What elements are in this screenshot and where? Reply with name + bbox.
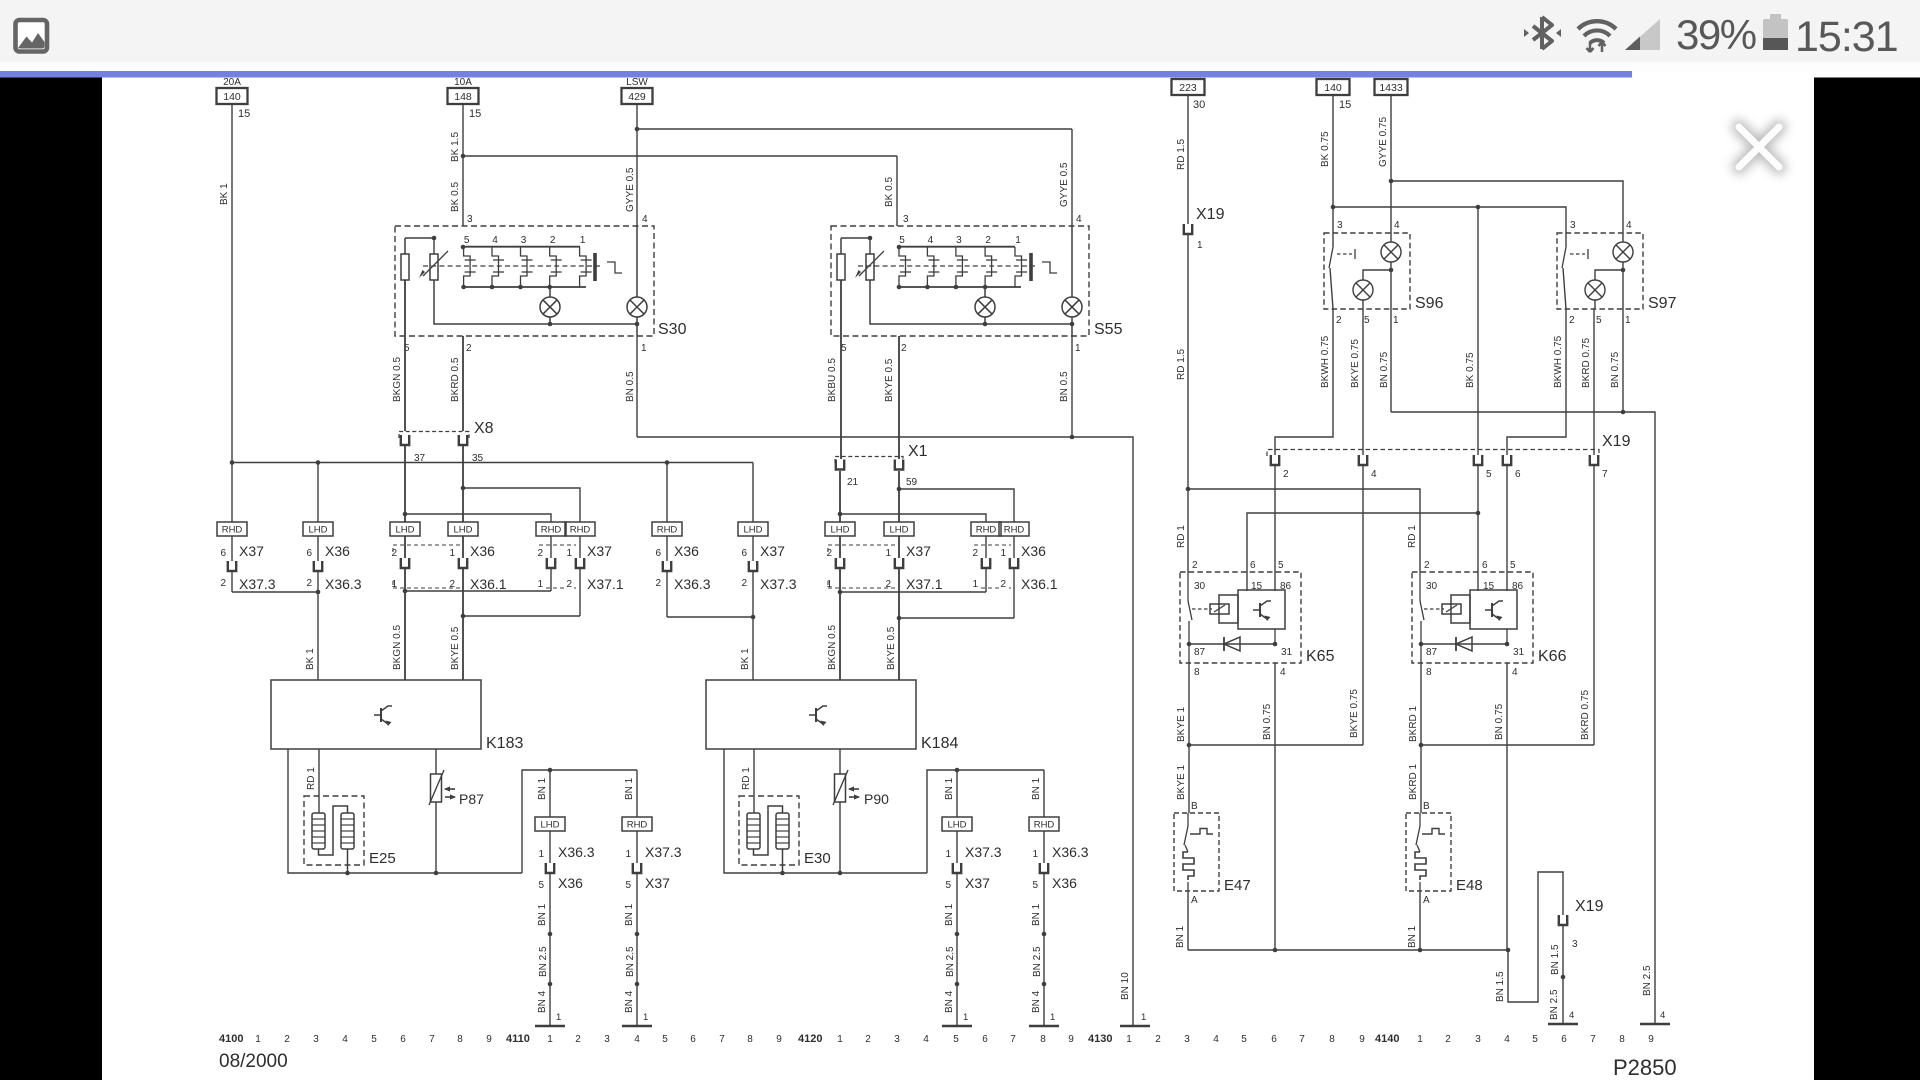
svg-text:P2850: P2850 bbox=[1613, 1055, 1677, 1080]
svg-text:1: 1 bbox=[643, 1012, 648, 1023]
svg-text:7: 7 bbox=[1010, 1034, 1016, 1045]
svg-text:1: 1 bbox=[556, 1012, 561, 1023]
svg-text:B: B bbox=[1191, 801, 1198, 812]
lamp in S55 (illumination) bbox=[975, 287, 995, 324]
svg-text:X37: X37 bbox=[906, 543, 931, 559]
wire BKGN 0.5 S30 pin5 to X8 pin37 bbox=[392, 336, 405, 431]
svg-text:5: 5 bbox=[945, 880, 951, 891]
svg-text:2: 2 bbox=[1283, 469, 1289, 480]
wire BN 2.5 to ground 4140-6 bbox=[1549, 925, 1565, 1024]
wire BK1 feed bus bbox=[230, 460, 753, 465]
svg-text:5: 5 bbox=[1241, 1034, 1247, 1045]
wire BN 0.75 bus S96/S97 to BN 2.5 ground bbox=[1391, 410, 1655, 1024]
svg-text:X36.3: X36.3 bbox=[325, 576, 362, 592]
wire BKYE 0.75 mirror lamp feed (X19-4 to K65-87) bbox=[1187, 466, 1363, 747]
svg-text:15: 15 bbox=[469, 108, 481, 120]
svg-text:4: 4 bbox=[1076, 214, 1082, 225]
svg-text:1: 1 bbox=[885, 548, 891, 559]
connector housing dashes circuit2 bbox=[828, 545, 1011, 588]
svg-text:1: 1 bbox=[972, 579, 978, 590]
wire RD 1.5 to relay feed bbox=[1176, 234, 1190, 491]
connector X37 RHD (left, pin6/2) bbox=[217, 463, 276, 593]
wire BK 0.75 to relay coils bbox=[1247, 466, 1480, 591]
wire BN 1 E48 to ground bus bbox=[1407, 891, 1420, 950]
svg-text:9: 9 bbox=[1359, 1034, 1365, 1045]
svg-text:X37.1: X37.1 bbox=[906, 576, 943, 592]
svg-text:X1: X1 bbox=[908, 443, 928, 460]
svg-text:7: 7 bbox=[719, 1034, 725, 1045]
svg-text:BN 1: BN 1 bbox=[537, 903, 548, 926]
svg-text:X37.3: X37.3 bbox=[760, 576, 797, 592]
connector housing dashes circuit1 bbox=[393, 545, 576, 588]
svg-text:31: 31 bbox=[1281, 647, 1293, 658]
wire RHD variant return BKGN bbox=[403, 589, 551, 594]
wire BKWH to K65 coil (pin 5/86) bbox=[1274, 466, 1276, 591]
switch S55 enclosure bbox=[831, 214, 1123, 354]
svg-text:4: 4 bbox=[642, 214, 648, 225]
svg-text:RD 1: RD 1 bbox=[1407, 525, 1418, 548]
fuse 223 bbox=[1172, 79, 1206, 111]
svg-text:LHD: LHD bbox=[889, 525, 908, 536]
svg-text:2: 2 bbox=[865, 1034, 871, 1045]
svg-text:30: 30 bbox=[1426, 581, 1438, 592]
relay K183 (heated mirror control) bbox=[271, 680, 523, 752]
svg-text:30: 30 bbox=[1194, 581, 1206, 592]
diode in K66 bbox=[1419, 637, 1510, 651]
switch lever S97 bbox=[1562, 233, 1588, 309]
svg-text:5: 5 bbox=[841, 343, 847, 354]
svg-text:GYYE 0.75: GYYE 0.75 bbox=[1378, 117, 1389, 167]
svg-text:LHD: LHD bbox=[743, 525, 762, 536]
switch S97 enclosure bbox=[1557, 220, 1677, 326]
svg-text:BN 1: BN 1 bbox=[624, 903, 635, 926]
wire GYYE 0.5 from fuse 429 to S30 pin4 bbox=[635, 104, 640, 226]
svg-text:2: 2 bbox=[284, 1034, 290, 1045]
fuse 140 (20A) bbox=[217, 77, 251, 120]
switch S96 enclosure bbox=[1324, 220, 1444, 326]
svg-text:P90: P90 bbox=[864, 791, 889, 807]
wire K66 pin87 BKRD 1 bbox=[1408, 644, 1421, 745]
svg-text:5: 5 bbox=[1364, 315, 1370, 326]
svg-text:X36: X36 bbox=[674, 543, 699, 559]
svg-text:BN 1: BN 1 bbox=[1031, 903, 1042, 926]
wire BN 0.75 S96 pin1 bbox=[1379, 309, 1391, 412]
svg-text:2: 2 bbox=[972, 548, 978, 559]
svg-text:X19: X19 bbox=[1196, 206, 1225, 223]
svg-text:BN 1: BN 1 bbox=[537, 777, 548, 800]
wire BK1.5 / BK0.5 from fuse 148 to S30 pin3 bbox=[450, 104, 465, 226]
svg-text:30: 30 bbox=[1193, 99, 1205, 111]
svg-text:BK 1: BK 1 bbox=[305, 648, 316, 670]
svg-text:1: 1 bbox=[1141, 1012, 1146, 1023]
close button X bbox=[1739, 127, 1779, 167]
relay K65 enclosure bbox=[1180, 560, 1335, 678]
wire BN 0.5 from S30 pin1 bbox=[625, 336, 637, 437]
svg-text:X37: X37 bbox=[760, 543, 785, 559]
svg-text:4: 4 bbox=[1504, 1034, 1510, 1045]
svg-text:LSW: LSW bbox=[626, 77, 648, 88]
wire BK 0.75 from fuse 140 to S96 pin3 bbox=[1320, 95, 1335, 233]
svg-text:3: 3 bbox=[521, 235, 527, 246]
svg-text:LHD: LHD bbox=[830, 525, 849, 536]
connector X36 LHD pass-through (BKGN) bbox=[390, 446, 420, 591]
svg-text:RHD: RHD bbox=[1034, 820, 1055, 831]
svg-text:5: 5 bbox=[899, 235, 905, 246]
connector X19 pin3 bbox=[1559, 898, 1604, 950]
svg-text:3: 3 bbox=[1570, 220, 1576, 231]
svg-text:7: 7 bbox=[1602, 469, 1608, 480]
ground column X36.3 RHD (4120-8) bbox=[1029, 770, 1089, 1026]
svg-text:E48: E48 bbox=[1456, 877, 1483, 894]
svg-text:RHD: RHD bbox=[657, 525, 678, 536]
svg-text:3: 3 bbox=[1337, 220, 1343, 231]
svg-text:1: 1 bbox=[1625, 315, 1631, 326]
svg-text:7: 7 bbox=[1299, 1034, 1305, 1045]
svg-text:A: A bbox=[1423, 895, 1430, 906]
svg-text:BK 0.5: BK 0.5 bbox=[450, 182, 461, 212]
svg-text:GYYE 0.5: GYYE 0.5 bbox=[625, 167, 636, 212]
svg-text:8: 8 bbox=[1329, 1034, 1335, 1045]
fuse 1433 bbox=[1375, 79, 1408, 95]
wire BKYE 0.5 S55 pin2 to X1 pin59 bbox=[884, 336, 899, 459]
svg-text:3: 3 bbox=[1475, 1034, 1481, 1045]
S30 rotary contact bank bbox=[423, 235, 622, 289]
connector X19 (mirror harness) bbox=[1267, 433, 1631, 480]
svg-text:BK 0.75: BK 0.75 bbox=[1320, 131, 1331, 167]
svg-text:BN 2.5: BN 2.5 bbox=[1642, 965, 1653, 996]
svg-text:E47: E47 bbox=[1224, 877, 1251, 894]
right black bar bbox=[1814, 78, 1920, 1080]
svg-text:X8: X8 bbox=[474, 420, 494, 437]
bluetooth icon bbox=[1524, 17, 1561, 49]
svg-text:BN 0.5: BN 0.5 bbox=[1059, 371, 1070, 402]
connector X37 LHD pass-through (BKGN, circuit2) bbox=[825, 471, 855, 592]
svg-text:BKWH 0.75: BKWH 0.75 bbox=[1320, 335, 1331, 388]
svg-text:4100: 4100 bbox=[219, 1033, 243, 1045]
connector X37.1 LHD pass-through (BKYE, circuit2) bbox=[884, 471, 943, 618]
fuse 429 (LSW) bbox=[622, 77, 653, 104]
svg-text:2: 2 bbox=[901, 343, 907, 354]
svg-text:6: 6 bbox=[1482, 560, 1488, 571]
svg-text:9: 9 bbox=[486, 1034, 492, 1045]
svg-text:7: 7 bbox=[1590, 1034, 1596, 1045]
heated washer jet E48 bbox=[1406, 745, 1483, 906]
svg-text:E25: E25 bbox=[369, 850, 396, 867]
svg-text:1: 1 bbox=[1015, 235, 1021, 246]
svg-text:BKYE 1: BKYE 1 bbox=[1176, 765, 1187, 800]
heater element E25 (mirror) bbox=[304, 796, 396, 873]
wire BKBU 0.5 S55 pin5 to X1 pin21 bbox=[827, 336, 841, 459]
lamp S96 upper bbox=[1381, 233, 1401, 309]
svg-text:1: 1 bbox=[1050, 1012, 1055, 1023]
connector X19 pin1 bbox=[1184, 206, 1225, 251]
svg-text:5: 5 bbox=[464, 235, 470, 246]
svg-text:8: 8 bbox=[1426, 667, 1432, 678]
svg-text:X36.1: X36.1 bbox=[470, 576, 507, 592]
lamp in S30 (indicator) bbox=[627, 226, 647, 336]
wire BKGN 0.5 to K184 bbox=[827, 592, 840, 680]
ground point 4140-9 bbox=[1640, 1023, 1670, 1026]
svg-text:BK 1.5: BK 1.5 bbox=[450, 132, 461, 162]
connector X36.1 LHD pass-through (BKRD) bbox=[448, 446, 507, 616]
wire BKWH 0.75 S97 pin2 to X19-6 bbox=[1507, 309, 1566, 455]
svg-text:8: 8 bbox=[457, 1034, 463, 1045]
svg-text:6: 6 bbox=[1561, 1034, 1567, 1045]
wire BKRD 0.5 S30 pin2 to X8 pin35 bbox=[450, 336, 463, 431]
svg-text:15: 15 bbox=[238, 108, 250, 120]
svg-text:BK 0.75: BK 0.75 bbox=[1465, 352, 1476, 388]
svg-text:BKWH 0.75: BKWH 0.75 bbox=[1553, 335, 1564, 388]
wire join to K184 BK1 bbox=[667, 615, 755, 680]
svg-text:2: 2 bbox=[391, 548, 397, 559]
fuse 140 (right) bbox=[1317, 79, 1352, 111]
wire BKYE 0.5 to K184 bbox=[886, 618, 899, 680]
svg-text:2: 2 bbox=[550, 235, 556, 246]
svg-text:1: 1 bbox=[580, 235, 586, 246]
svg-text:1433: 1433 bbox=[1379, 82, 1403, 94]
svg-text:2: 2 bbox=[1192, 560, 1198, 571]
svg-text:LHD: LHD bbox=[453, 525, 472, 536]
wire BK 0.5 branch to S55 pin3 bbox=[463, 156, 897, 226]
ground column X36.3 LHD (4110-1) bbox=[535, 770, 595, 1026]
svg-text:RD 1: RD 1 bbox=[306, 767, 317, 790]
svg-text:6: 6 bbox=[1271, 1034, 1277, 1045]
svg-text:BK 1: BK 1 bbox=[219, 183, 230, 205]
svg-text:E30: E30 bbox=[804, 850, 831, 867]
wire BKYE 0.5 to K183 bbox=[450, 616, 463, 680]
wire BKYE 0.75 S96 pin5 to X19-4 bbox=[1350, 309, 1363, 455]
svg-text:3: 3 bbox=[1572, 939, 1578, 950]
ground point 4120-8 bbox=[1029, 1025, 1059, 1028]
svg-text:1: 1 bbox=[625, 849, 631, 860]
svg-text:6: 6 bbox=[982, 1034, 988, 1045]
svg-text:X36.3: X36.3 bbox=[1052, 844, 1089, 860]
svg-text:7: 7 bbox=[429, 1034, 435, 1045]
battery icon bbox=[1763, 14, 1788, 50]
wire BK 0.75 branch to S97 pin3 and X19-5 bbox=[1333, 205, 1566, 455]
svg-text:87: 87 bbox=[1426, 647, 1438, 658]
svg-text:BN 1.5: BN 1.5 bbox=[1495, 971, 1506, 1002]
switch lever S96 bbox=[1329, 233, 1355, 309]
wire BN 1 E47 to ground bus bbox=[1175, 891, 1188, 950]
wire BN 1.5 jog to X19-3 bbox=[1495, 872, 1563, 1002]
svg-text:429: 429 bbox=[628, 91, 646, 103]
svg-text:BN 0.75: BN 0.75 bbox=[1610, 351, 1621, 388]
svg-text:X36: X36 bbox=[1021, 543, 1046, 559]
ground point 4120-5 bbox=[942, 1025, 972, 1028]
svg-text:5: 5 bbox=[1032, 880, 1038, 891]
wire K65 pin31 BN 0.75 bbox=[1262, 663, 1275, 950]
svg-text:2: 2 bbox=[741, 578, 747, 589]
connector X8 bbox=[399, 420, 494, 464]
svg-text:BN 0.75: BN 0.75 bbox=[1379, 351, 1390, 388]
svg-text:LHD: LHD bbox=[540, 820, 559, 831]
svg-text:X19: X19 bbox=[1602, 433, 1631, 450]
ground point 4140-6 bbox=[1548, 1023, 1578, 1026]
lamp S97 upper bbox=[1613, 233, 1633, 309]
svg-text:LHD: LHD bbox=[395, 525, 414, 536]
connector X1 bbox=[835, 443, 928, 488]
svg-text:BKYE 0.75: BKYE 0.75 bbox=[1350, 339, 1361, 388]
svg-text:4: 4 bbox=[1213, 1034, 1219, 1045]
svg-text:39%: 39% bbox=[1676, 11, 1756, 58]
svg-text:BKYE 0.5: BKYE 0.5 bbox=[884, 358, 895, 402]
svg-text:5: 5 bbox=[1532, 1034, 1538, 1045]
svg-text:8: 8 bbox=[1619, 1034, 1625, 1045]
wire join RHD/LHD to K183 BK1 bbox=[232, 590, 320, 680]
svg-text:BKRD 1: BKRD 1 bbox=[1408, 705, 1419, 742]
wire BN 0.5 from S55 pin1 bbox=[1059, 336, 1072, 437]
svg-text:X36.1: X36.1 bbox=[1021, 576, 1058, 592]
svg-text:8: 8 bbox=[1040, 1034, 1046, 1045]
svg-text:2: 2 bbox=[466, 343, 472, 354]
svg-text:X37: X37 bbox=[587, 543, 612, 559]
svg-text:1: 1 bbox=[538, 849, 544, 860]
svg-text:1: 1 bbox=[1393, 315, 1399, 326]
svg-text:BKRD 0.5: BKRD 0.5 bbox=[450, 357, 461, 402]
svg-text:31: 31 bbox=[1513, 647, 1525, 658]
svg-text:X37.3: X37.3 bbox=[239, 576, 276, 592]
svg-text:1: 1 bbox=[1075, 343, 1081, 354]
svg-text:5: 5 bbox=[1486, 469, 1492, 480]
svg-text:BN 2.5: BN 2.5 bbox=[945, 946, 956, 977]
status bar background bbox=[0, 0, 1920, 62]
svg-text:6: 6 bbox=[400, 1034, 406, 1045]
lamp S96 lower bbox=[1353, 270, 1391, 309]
wire RHD variant return circuit2 BKGN bbox=[838, 590, 986, 595]
wire RD 1 K183 to E25 bbox=[306, 749, 319, 813]
svg-text:6: 6 bbox=[306, 548, 312, 559]
svg-text:5: 5 bbox=[1278, 560, 1284, 571]
svg-text:RD 1.5: RD 1.5 bbox=[1176, 138, 1187, 170]
svg-text:X36.3: X36.3 bbox=[558, 844, 595, 860]
svg-text:LHD: LHD bbox=[308, 525, 327, 536]
svg-text:140: 140 bbox=[1324, 82, 1342, 94]
svg-text:P87: P87 bbox=[459, 791, 484, 807]
svg-text:S96: S96 bbox=[1415, 295, 1444, 312]
svg-text:6: 6 bbox=[220, 548, 226, 559]
svg-text:K184: K184 bbox=[921, 735, 958, 752]
svg-text:9: 9 bbox=[1648, 1034, 1654, 1045]
svg-text:RD 1: RD 1 bbox=[741, 767, 752, 790]
svg-text:6: 6 bbox=[741, 548, 747, 559]
svg-text:1: 1 bbox=[537, 579, 543, 590]
svg-text:BN 10: BN 10 bbox=[1120, 972, 1131, 1000]
wire branch circuit2 BKGN to RHD variant bbox=[838, 512, 986, 522]
track scale row bbox=[219, 1033, 1654, 1045]
gallery icon bbox=[16, 20, 48, 52]
wire BN bus to BN 10 ground bbox=[637, 435, 1133, 1026]
svg-text:S55: S55 bbox=[1094, 321, 1123, 338]
heated washer jet E47 bbox=[1174, 745, 1251, 906]
relay K65 electronic coil bbox=[1238, 590, 1285, 644]
svg-text:X36: X36 bbox=[558, 875, 583, 891]
wire GYYE 0.75 from fuse 1433 to S96 pin4 bbox=[1378, 95, 1393, 233]
svg-text:1: 1 bbox=[963, 1012, 968, 1023]
svg-text:B: B bbox=[1423, 801, 1430, 812]
svg-text:1: 1 bbox=[945, 849, 951, 860]
ground column X37.3 RHD (4110-4) bbox=[622, 770, 682, 1026]
svg-text:2: 2 bbox=[1424, 560, 1430, 571]
svg-text:X36: X36 bbox=[1052, 875, 1077, 891]
relay K66 electronic coil bbox=[1470, 590, 1517, 644]
svg-text:BN 4: BN 4 bbox=[944, 990, 955, 1013]
wire BKRD 0.75 mirror lamp feed (X19-7 to K66-87) bbox=[1419, 466, 1594, 747]
svg-text:10A: 10A bbox=[454, 77, 472, 88]
wire GYYE 0.5 branch to S55 pin4 bbox=[625, 129, 1072, 226]
svg-text:4120: 4120 bbox=[798, 1033, 822, 1045]
diode in K65 bbox=[1187, 637, 1278, 651]
svg-text:1: 1 bbox=[1032, 849, 1038, 860]
svg-text:4140: 4140 bbox=[1375, 1033, 1399, 1045]
svg-text:4: 4 bbox=[1626, 220, 1632, 231]
relay K66 enclosure bbox=[1412, 560, 1567, 678]
svg-text:2: 2 bbox=[655, 578, 661, 589]
lamp in S55 (indicator) bbox=[1062, 226, 1082, 336]
relay K184 (heated mirror control) bbox=[706, 680, 958, 752]
wire RHD variant return circuit2 BKYE bbox=[897, 616, 1014, 621]
svg-text:6: 6 bbox=[690, 1034, 696, 1045]
svg-text:1: 1 bbox=[641, 343, 647, 354]
svg-text:2: 2 bbox=[826, 548, 832, 559]
svg-text:BN 0.75: BN 0.75 bbox=[1262, 703, 1273, 740]
svg-text:BN 1.5: BN 1.5 bbox=[1550, 944, 1561, 975]
wire BK1 from fuse 140 bbox=[219, 104, 232, 463]
wire K65 pin87 BKYE 1 bbox=[1176, 644, 1189, 745]
svg-text:3: 3 bbox=[313, 1034, 319, 1045]
ground column X37.3 LHD (4120-5) bbox=[942, 770, 1002, 1026]
wire BKWH to K66 coil (pin 5/86) bbox=[1506, 466, 1508, 591]
svg-text:3: 3 bbox=[467, 214, 473, 225]
wire RHD variant return BKRD bbox=[461, 614, 580, 619]
svg-text:BN 1: BN 1 bbox=[1175, 925, 1186, 948]
wire K66 pin31 BN 0.75 bbox=[1494, 663, 1507, 950]
svg-text:1: 1 bbox=[1126, 1034, 1132, 1045]
svg-text:BKYE 0.5: BKYE 0.5 bbox=[450, 626, 461, 670]
svg-text:15:31: 15:31 bbox=[1795, 13, 1898, 61]
wire branch BKRD to RHD variant bbox=[461, 486, 580, 522]
wire BKGN 0.5 to K183 bbox=[392, 591, 405, 680]
svg-text:BN 0.75: BN 0.75 bbox=[1494, 703, 1505, 740]
connector X36 RHD variant circuit2 bbox=[971, 522, 1001, 592]
svg-text:1: 1 bbox=[1417, 1034, 1423, 1045]
svg-text:K65: K65 bbox=[1306, 648, 1335, 665]
svg-text:4130: 4130 bbox=[1088, 1033, 1112, 1045]
svg-text:5: 5 bbox=[625, 880, 631, 891]
svg-text:6: 6 bbox=[1515, 469, 1521, 480]
svg-text:BN 2.5: BN 2.5 bbox=[538, 946, 549, 977]
svg-text:BKYE 0.75: BKYE 0.75 bbox=[1349, 689, 1360, 738]
svg-text:1: 1 bbox=[1197, 240, 1203, 251]
svg-text:BK 1: BK 1 bbox=[740, 648, 751, 670]
svg-text:4: 4 bbox=[1512, 667, 1518, 678]
svg-text:2: 2 bbox=[306, 578, 312, 589]
svg-text:1: 1 bbox=[837, 1034, 843, 1045]
wire BN 0.75 S97 pin1 bbox=[1610, 309, 1623, 412]
svg-text:BKRD 0.75: BKRD 0.75 bbox=[1581, 338, 1592, 388]
connector X37 RHD variant (pin2/1) bbox=[536, 522, 566, 591]
svg-text:8: 8 bbox=[747, 1034, 753, 1045]
wire BKRD 0.75 S97 pin5 to X19-7 bbox=[1581, 309, 1594, 455]
svg-text:9: 9 bbox=[776, 1034, 782, 1045]
svg-text:BN 1: BN 1 bbox=[1031, 777, 1042, 800]
svg-text:4: 4 bbox=[1569, 1010, 1574, 1021]
wire BKWH 0.75 S96 pin2 to X19-2 bbox=[1275, 309, 1333, 455]
wire K184 left output to ground bus bbox=[724, 749, 927, 875]
svg-text:X37: X37 bbox=[965, 875, 990, 891]
left black bar bbox=[0, 78, 102, 1080]
svg-text:2: 2 bbox=[1000, 579, 1006, 590]
